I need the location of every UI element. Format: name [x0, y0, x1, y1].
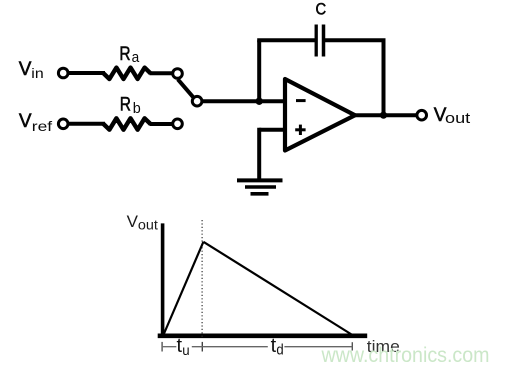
- junction inverting node: [256, 98, 263, 105]
- measure tick middle: [201, 342, 203, 352]
- wire Ra to switch: [150, 71, 173, 75]
- junction output node: [380, 112, 387, 119]
- svg-text:V: V: [19, 111, 32, 132]
- resistor Ra: [104, 68, 151, 79]
- label tu: [177, 335, 190, 358]
- switch pole terminal: [192, 96, 202, 106]
- wire feedback up: [257, 40, 261, 103]
- svg-text:b: b: [133, 100, 141, 117]
- svg-text:u: u: [182, 343, 189, 358]
- terminal Vin: [58, 68, 68, 78]
- wire Vin to Ra: [69, 71, 106, 75]
- wire pole to inverting node: [203, 99, 260, 103]
- label Ra: [119, 44, 140, 66]
- wire Rb to open terminal: [150, 122, 173, 126]
- wire feedback down to output: [382, 40, 386, 115]
- graph x-axis: [158, 333, 368, 338]
- op-amp minus sign: [296, 99, 306, 102]
- label td: [271, 335, 284, 359]
- svg-text:out: out: [445, 111, 470, 127]
- svg-text:R: R: [120, 94, 131, 115]
- measure tick left: [161, 342, 163, 352]
- wire Vref to Rb: [69, 122, 106, 126]
- svg-text:R: R: [119, 44, 130, 65]
- svg-text:ref: ref: [32, 118, 52, 134]
- op-amp plus sign: [295, 125, 305, 135]
- svg-text:a: a: [132, 50, 140, 66]
- node Vin label: [19, 59, 44, 81]
- ground: [237, 180, 283, 193]
- op-amp U1: [285, 79, 355, 151]
- terminal Vout: [417, 110, 427, 120]
- svg-text:www.chtronics.com: www.chtronics.com: [321, 344, 490, 367]
- capacitor C left plate: [315, 25, 318, 57]
- label C: [316, 0, 327, 19]
- resistor Rb: [104, 118, 151, 129]
- waveform rising edge: [163, 242, 203, 335]
- svg-text:C: C: [316, 0, 327, 19]
- svg-text:V: V: [19, 59, 32, 80]
- label Rb: [120, 94, 141, 116]
- graph Vout axis label: [127, 212, 159, 233]
- node Vref label: [19, 111, 52, 134]
- switch throw terminal: [173, 69, 183, 79]
- switch arm: [178, 79, 193, 97]
- terminal Vref: [58, 119, 68, 129]
- node Vout label: [434, 105, 470, 127]
- wire op-amp plus input: [259, 128, 286, 132]
- svg-text:d: d: [276, 342, 283, 359]
- wire node to op-amp minus input: [259, 99, 286, 103]
- graph y-axis: [161, 223, 165, 337]
- svg-text:in: in: [31, 65, 43, 81]
- graph dotted peak line: [201, 220, 203, 337]
- svg-text:out: out: [138, 218, 158, 233]
- measure line tu: [163, 346, 352, 348]
- switch open terminal (Rb side): [173, 119, 183, 129]
- wire plus input down to ground: [257, 128, 261, 181]
- measure tick right: [351, 342, 353, 350]
- waveform falling edge: [203, 242, 352, 335]
- capacitor C right plate: [322, 25, 326, 57]
- wire feedback top left: [257, 38, 316, 42]
- wire feedback top right: [324, 38, 386, 42]
- svg-text:V: V: [127, 212, 139, 231]
- wire op-amp output: [354, 113, 417, 117]
